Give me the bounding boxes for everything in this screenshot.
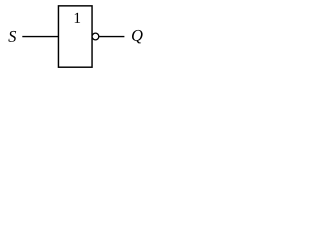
gate function label 1	[75, 13, 80, 23]
inversion bubble	[92, 33, 99, 40]
node S label	[8, 31, 16, 42]
input wire from S	[22, 36, 58, 38]
output wire to Q	[99, 36, 124, 38]
node Q label	[132, 30, 143, 44]
background	[0, 0, 148, 74]
inverter gate U1 (IEC box)	[58, 6, 92, 67]
